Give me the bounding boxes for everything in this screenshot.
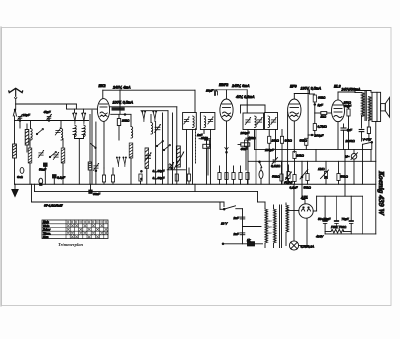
wire — [307, 135, 309, 138]
wire — [83, 109, 85, 113]
svg-text:50kΩ: 50kΩ — [341, 175, 349, 179]
cap det — [246, 138, 250, 140]
cap 2nF lower — [240, 233, 245, 235]
variable caps — [155, 124, 161, 132]
svg-text:400V: 400V — [316, 235, 324, 239]
svg-text:245V, 6mA: 245V, 6mA — [231, 84, 250, 88]
res 50k det — [280, 161, 283, 184]
svg-text:50kΩ: 50kΩ — [304, 186, 312, 190]
tuning section — [102, 107, 190, 184]
svg-text:70µF: 70µF — [342, 217, 350, 221]
svg-text:30kΩ: 30kΩ — [318, 96, 326, 100]
wire — [370, 149, 372, 161]
svg-text:10µF: 10µF — [206, 89, 214, 93]
svg-text:0,1µF: 0,1µF — [57, 176, 66, 180]
svg-text:EF9: EF9 — [290, 85, 297, 89]
rails — [110, 106, 177, 108]
svg-text:(4,5V): (4,5V) — [284, 181, 292, 185]
wire — [75, 104, 77, 109]
trim capacitor 10pF — [18, 114, 23, 121]
speaker coupling cap — [359, 130, 364, 142]
svg-text:40pF: 40pF — [44, 110, 52, 114]
svg-text:Kern: Kern — [43, 235, 49, 239]
antenna switch — [13, 104, 16, 116]
osc can 1 — [183, 113, 197, 185]
svg-text:1µF: 1µF — [318, 103, 325, 107]
ground bus A — [15, 183, 376, 185]
rectifier AZ1 — [286, 161, 317, 218]
svg-text:1k: 1k — [247, 238, 251, 242]
IF can 4 — [265, 113, 278, 160]
svg-text:20kΩ: 20kΩ — [121, 119, 130, 123]
band coil group B — [61, 121, 65, 185]
cathode aux wire — [95, 122, 97, 184]
table marks — [67, 225, 107, 239]
band switches pair — [116, 157, 120, 167]
svg-text:220: 220 — [267, 226, 273, 229]
svg-text:40nF: 40nF — [241, 147, 249, 151]
plate feed EF9 — [309, 91, 311, 95]
svg-text:AZ1: AZ1 — [300, 196, 308, 200]
svg-text:1MΩ: 1MΩ — [318, 167, 325, 171]
svg-text:2kΩ: 2kΩ — [200, 136, 207, 140]
svg-text:6,3V/0,3A: 6,3V/0,3A — [301, 245, 315, 249]
svg-text:2nF: 2nF — [233, 232, 240, 236]
svg-text:40V, 0,3mA: 40V, 0,3mA — [236, 95, 255, 99]
res 30k top — [280, 130, 283, 185]
EK2 grid wire — [91, 110, 93, 184]
svg-text:100V, 0,5mA: 100V, 0,5mA — [113, 100, 134, 104]
svg-text:3…30pF: 3…30pF — [153, 169, 166, 173]
jack 2 — [39, 178, 43, 185]
res 10 — [367, 127, 370, 141]
svg-text:50nF: 50nF — [39, 168, 47, 172]
wire — [264, 105, 266, 113]
mains switch — [220, 202, 243, 244]
switch contact — [123, 157, 127, 167]
svg-text:18 V: 18 V — [221, 222, 228, 226]
pot det — [286, 165, 292, 184]
tube EBF2 — [220, 90, 233, 184]
antenna coil choke — [13, 144, 17, 158]
bottom HV wire — [325, 233, 376, 235]
page frame — [2, 28, 392, 306]
switch contact — [82, 113, 86, 124]
cap 50nF — [44, 163, 48, 184]
tube EL3 — [332, 92, 356, 149]
svg-text:Trimm.: Trimm. — [43, 231, 51, 235]
wire to ground — [14, 158, 16, 184]
tube EF9 — [288, 94, 301, 185]
tone switch — [363, 141, 373, 184]
svg-text:240: 240 — [267, 220, 273, 223]
line choke — [248, 242, 255, 246]
svg-text:10pF: 10pF — [23, 113, 31, 117]
svg-text:4µF: 4µF — [347, 128, 354, 132]
res horizontal det — [238, 143, 250, 146]
antenna — [9, 88, 23, 104]
switch det — [259, 161, 262, 171]
wire antenna down — [14, 116, 16, 144]
cathode resistors — [102, 175, 105, 182]
res 20k top — [268, 136, 271, 184]
svg-text:Zeiger: Zeiger — [42, 228, 50, 232]
vertical 345 — [344, 149, 346, 196]
table — [42, 220, 108, 239]
wire — [294, 93, 309, 95]
svg-text:40kΩ: 40kΩ — [248, 136, 256, 140]
switch mid — [156, 140, 163, 146]
res box under can2 — [203, 139, 210, 185]
resistors mid col — [206, 140, 247, 175]
antenna feed wire — [16, 103, 77, 105]
band switches vertical — [142, 111, 146, 122]
trimmers right — [174, 146, 184, 169]
cap 1nF — [199, 130, 211, 141]
cathode resistor 150 — [347, 104, 350, 149]
antenna transformer switches — [73, 113, 77, 124]
trimmer EK2 — [93, 163, 99, 172]
speaker — [371, 91, 390, 122]
svg-text:Kreis: Kreis — [43, 220, 50, 224]
res 294 low — [293, 161, 296, 184]
svg-text:2000Ω: 2000Ω — [345, 139, 356, 143]
svg-text:FWK 700Ω: FWK 700Ω — [331, 225, 347, 229]
electrolytic 50+50uF — [323, 196, 338, 234]
trim capacitor 40pF — [47, 114, 52, 121]
power transformer — [258, 202, 289, 248]
jack oval — [259, 171, 263, 185]
svg-text:Trimmerplan: Trimmerplan — [58, 242, 84, 247]
wire to transformer mid — [243, 226, 262, 228]
AVC line — [248, 160, 376, 162]
plate rail — [103, 89, 195, 91]
wire — [74, 109, 76, 113]
HT line — [255, 148, 372, 150]
wire — [362, 196, 364, 234]
switch A — [49, 151, 56, 157]
osc can 2 — [200, 113, 215, 185]
B+ line — [317, 195, 363, 197]
right vertical — [375, 122, 377, 234]
svg-text:EK2: EK2 — [99, 84, 106, 88]
cap 0.1uF — [53, 175, 57, 185]
routing rect — [241, 104, 266, 106]
var cap det — [272, 158, 282, 165]
pot vol — [300, 161, 309, 184]
svg-text:Welle: Welle — [43, 224, 50, 228]
svg-text:20kΩ: 20kΩ — [271, 139, 280, 143]
resistor row — [218, 166, 249, 184]
svg-text:M=: M= — [345, 155, 350, 159]
coils — [131, 127, 133, 139]
svg-text:195V, 3,5mA: 195V, 3,5mA — [301, 87, 322, 91]
grid coupling EL3 — [315, 112, 332, 124]
svg-text:EL3: EL3 — [334, 85, 341, 89]
svg-text:1kΩ: 1kΩ — [321, 115, 327, 119]
wire — [310, 93, 315, 95]
junction — [48, 120, 50, 122]
svg-text:200µF: 200µF — [314, 134, 325, 138]
antenna transformer coils — [73, 115, 90, 185]
pot tone — [321, 161, 329, 184]
svg-text:V=7W: V=7W — [363, 138, 373, 142]
bus B right — [195, 184, 258, 202]
svg-text:0,1MΩ: 0,1MΩ — [271, 164, 281, 168]
cap 4uF — [341, 124, 346, 149]
svg-text:50µF: 50µF — [344, 104, 352, 108]
resistor 700 zigzag — [325, 229, 351, 233]
wire — [119, 90, 121, 114]
wire — [246, 90, 248, 113]
svg-text:200µF: 200µF — [240, 131, 251, 135]
trimmer A — [38, 150, 44, 158]
wire — [194, 90, 196, 112]
svg-text:ST=1,6kΩ/5mW: ST=1,6kΩ/5mW — [44, 204, 63, 208]
svg-text:50+50µF: 50+50µF — [318, 217, 331, 221]
cap 10uF — [215, 90, 218, 95]
IF can 3 — [243, 113, 264, 184]
trimmer B — [53, 152, 59, 160]
svg-text:3…30pF: 3…30pF — [153, 176, 166, 180]
svg-text:2nF: 2nF — [233, 216, 240, 220]
res 50k right — [337, 161, 340, 184]
resistor 0.3M — [305, 138, 308, 149]
resistor 30 — [88, 162, 92, 184]
output transformer — [355, 91, 371, 129]
trimmer band B upper — [55, 128, 61, 136]
svg-text:Koenig 439 W: Koenig 439 W — [377, 170, 386, 216]
electrolytic 70uF — [349, 196, 353, 234]
ground — [12, 184, 18, 196]
switch EK2 cathode — [91, 144, 97, 149]
left page edge — [0, 27, 2, 306]
wire — [15, 120, 21, 122]
tube EK2 — [67, 90, 110, 168]
wire — [240, 105, 242, 113]
svg-text:0,7MΩ: 0,7MΩ — [318, 125, 328, 129]
node bus y120.5 — [20, 120, 89, 122]
bus B left — [35, 184, 258, 191]
gang link dashed — [195, 129, 197, 163]
resistor 0.7M — [308, 124, 316, 136]
cap 2nF upper — [240, 217, 245, 219]
resistor 30k — [313, 95, 316, 113]
svg-text:110: 110 — [268, 232, 272, 235]
junction — [19, 120, 21, 122]
res EF9 k — [293, 152, 296, 162]
resistor boxes bottom — [139, 174, 142, 181]
resistor 20k — [117, 119, 120, 126]
wire — [66, 104, 68, 109]
switch A2 — [36, 128, 43, 134]
svg-text:240V, 4mA: 240V, 4mA — [112, 85, 131, 89]
wire — [315, 149, 317, 161]
long verticals — [155, 122, 157, 185]
dark label — [112, 107, 125, 110]
svg-text:10kΩ: 10kΩ — [297, 154, 305, 158]
svg-text:30nF: 30nF — [93, 192, 101, 196]
cap 30nF on bus — [89, 184, 92, 193]
M circle — [351, 149, 358, 184]
pilot lamp — [289, 184, 307, 250]
svg-text:50kΩ: 50kΩ — [300, 139, 308, 143]
mains bottom wire — [222, 243, 262, 245]
svg-text:100pF: 100pF — [265, 148, 275, 152]
jack — [20, 168, 24, 174]
svg-text:EBF2: EBF2 — [219, 83, 228, 87]
svg-text:Geh: Geh — [17, 175, 23, 179]
svg-text:50kΩ: 50kΩ — [272, 175, 280, 179]
svg-text:30kΩ: 30kΩ — [285, 139, 293, 143]
grid routing — [213, 89, 247, 91]
band coil group A — [20, 121, 32, 185]
long vertical 308 — [307, 91, 309, 136]
bus C — [32, 184, 225, 206]
